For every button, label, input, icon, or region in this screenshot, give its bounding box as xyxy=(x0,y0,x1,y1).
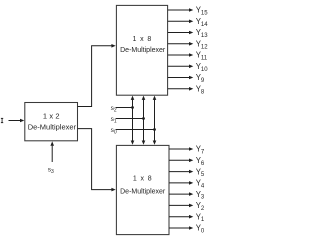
svg-text:Y15: Y15 xyxy=(196,6,209,17)
svg-text:Y0: Y0 xyxy=(196,224,205,235)
junction node s0 xyxy=(153,128,156,131)
wire: s0 stub to select line xyxy=(116,129,155,131)
svg-text:s3: s3 xyxy=(48,167,54,176)
wire: s2 stub to select line xyxy=(116,107,133,109)
svg-text:s2: s2 xyxy=(111,105,117,114)
wire: output Y13 from U2 xyxy=(168,31,194,35)
svg-text:Y1: Y1 xyxy=(196,212,205,223)
wire: output Y4 from U3 xyxy=(169,181,193,185)
svg-text:Y4: Y4 xyxy=(196,179,205,190)
wire: output Y15 from U2 xyxy=(168,8,194,12)
svg-text:De-Multiplexer: De-Multiplexer xyxy=(120,47,166,54)
wire: output Y1 from U3 xyxy=(169,215,193,219)
wire: input I into U1 xyxy=(9,119,25,123)
svg-text:Y10: Y10 xyxy=(196,62,209,73)
svg-text:Y5: Y5 xyxy=(196,167,205,178)
de-multiplexer U3 (1 x 8, bottom) xyxy=(116,145,169,234)
svg-text:s1: s1 xyxy=(111,116,117,125)
wire: output Y14 from U2 xyxy=(168,20,194,24)
wire: output Y5 from U3 xyxy=(169,170,193,174)
wire: select line s1 vertical segment between U2 and U3 xyxy=(142,96,146,145)
wire: output Y2 from U3 xyxy=(169,204,193,208)
svg-text:s0: s0 xyxy=(111,127,117,136)
wire: output Y11 from U2 xyxy=(168,53,194,57)
svg-text:Y11: Y11 xyxy=(196,51,208,62)
wire: U1 output D0 to U2 data input xyxy=(78,44,116,107)
wire: output Y10 from U2 xyxy=(168,65,194,69)
svg-text:Y6: Y6 xyxy=(196,156,205,167)
wire: U1 output D1 to U3 data input xyxy=(78,129,116,192)
de-multiplexer U1 (1 x 2) xyxy=(25,103,78,141)
wire: select line s2 vertical segment between U2 and U3 xyxy=(131,96,135,145)
junction node s1 xyxy=(142,117,145,120)
wire: output Y6 from U3 xyxy=(169,159,193,163)
svg-text:De-Multiplexer: De-Multiplexer xyxy=(28,123,77,132)
svg-text:Y8: Y8 xyxy=(196,85,205,96)
junction node s2 xyxy=(131,106,134,109)
svg-text:De-Multiplexer: De-Multiplexer xyxy=(120,189,166,196)
wire: s1 stub to select line xyxy=(116,118,144,120)
svg-text:Y12: Y12 xyxy=(196,40,209,51)
de-multiplexer U2 (1 x 8, top) xyxy=(116,5,167,95)
svg-text:Y2: Y2 xyxy=(196,201,205,212)
svg-text:Y14: Y14 xyxy=(196,17,209,28)
wire: output Y7 from U3 xyxy=(169,147,193,151)
svg-text:Y7: Y7 xyxy=(196,145,205,156)
input label I xyxy=(1,118,3,123)
wire: output Y9 from U2 xyxy=(168,76,194,80)
svg-text:1 x 8: 1 x 8 xyxy=(133,176,153,183)
svg-text:Y9: Y9 xyxy=(196,73,205,84)
svg-text:Y13: Y13 xyxy=(196,28,209,39)
svg-text:1 x 2: 1 x 2 xyxy=(43,111,60,120)
wire: output Y12 from U2 xyxy=(168,42,194,46)
wire: select line s0 vertical segment between U2 and U3 xyxy=(153,96,157,145)
svg-text:Y3: Y3 xyxy=(196,190,205,201)
wire: output Y8 from U2 xyxy=(168,87,194,91)
wire: s3 into U1 xyxy=(50,141,54,162)
wire: output Y0 from U3 xyxy=(169,226,193,230)
wire: output Y3 from U3 xyxy=(169,192,193,196)
svg-text:1 x 8: 1 x 8 xyxy=(132,36,152,43)
